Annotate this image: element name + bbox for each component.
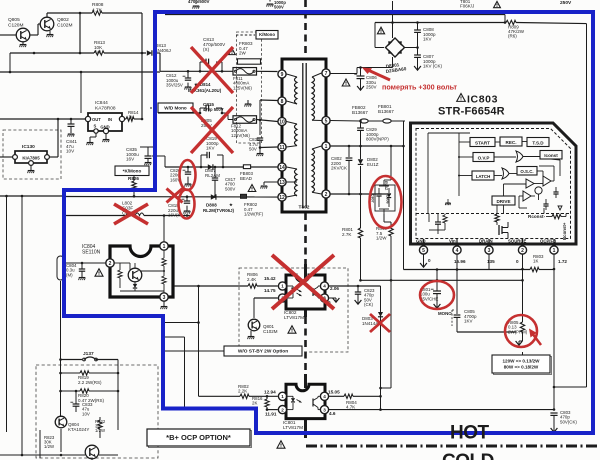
- connector J pad: [57, 256, 64, 280]
- svg-text:KTA1024Y: KTA1024Y: [68, 427, 89, 432]
- svg-text:F06K/J: F06K/J: [460, 4, 474, 9]
- svg-text:1.72: 1.72: [558, 259, 567, 264]
- wire primary return y194: [331, 193, 392, 195]
- wire pin1 ocp down: [553, 254, 555, 409]
- svg-text:MONO: MONO: [438, 311, 452, 316]
- svg-text:250V: 250V: [366, 85, 377, 90]
- svg-text:(R6): (R6): [508, 34, 517, 39]
- svg-text:2.4K: 2.4K: [247, 277, 256, 282]
- ground under C803: [551, 428, 558, 432]
- T802 secondary winding 10-11: [295, 124, 298, 146]
- capacitor C830: [259, 100, 261, 135]
- IC803 internal wiring: [428, 132, 470, 134]
- svg-text:R808: R808: [92, 2, 104, 8]
- resistor FR802: [241, 194, 247, 198]
- warning triangle near FR803: [229, 49, 236, 55]
- svg-text:2K: 2K: [252, 401, 257, 406]
- svg-text:0: 0: [428, 258, 431, 263]
- IC804 body: [110, 246, 173, 297]
- svg-text:135: 135: [487, 259, 495, 264]
- T802 pin 8: [278, 97, 286, 105]
- IC803 inner dashed outline: [416, 129, 571, 239]
- capacitor C812: [187, 71, 189, 78]
- red X over D803: [370, 314, 390, 332]
- wire IC804 pin1 up to rail: [163, 216, 165, 242]
- isolation barrier below IC801: [304, 420, 307, 438]
- transistor Q804: [55, 416, 67, 428]
- wire IC802 pin1 rail: [174, 285, 248, 287]
- wire rail y167 to pin14: [165, 166, 278, 168]
- warning triangle below IC802: [288, 326, 296, 333]
- IC803 pin 2: [518, 246, 526, 254]
- svg-text:2.2K: 2.2K: [238, 389, 247, 394]
- T802 pin 12: [278, 193, 286, 201]
- red ellipse around R805: [505, 315, 537, 347]
- svg-text:1: 1: [325, 144, 328, 150]
- wire note box to pin1 line: [522, 352, 524, 355]
- svg-text:JM: JM: [128, 115, 134, 120]
- svg-text:16.96: 16.96: [454, 259, 466, 264]
- svg-text:15.05: 15.05: [328, 390, 340, 395]
- svg-text:COLD: COLD: [442, 451, 494, 460]
- resistor R805 (red circled): [522, 318, 524, 322]
- wire bridge AC left: [374, 23, 376, 48]
- svg-text:5: 5: [422, 248, 425, 254]
- svg-text:B13667: B13667: [378, 109, 394, 114]
- HOT/COLD separator dash-dot line: [306, 445, 600, 448]
- red X near C818: [167, 189, 183, 203]
- red X over L802: [114, 204, 148, 224]
- wire pin4 Vin down: [456, 254, 458, 269]
- capacitor C807: [417, 48, 419, 56]
- svg-text:Q805: Q805: [8, 17, 20, 23]
- node C807/C808 junction: [416, 46, 419, 49]
- svg-text:3: 3: [163, 295, 166, 301]
- svg-text:O.V.P: O.V.P: [478, 155, 490, 160]
- wire to fuse F812: [222, 112, 228, 114]
- wire vertical x142: [141, 13, 143, 119]
- svg-text:80W => 0.18/2W: 80W => 0.18/2W: [504, 365, 539, 370]
- svg-text:1: 1: [163, 244, 166, 250]
- wire from IC804 region down: [198, 286, 200, 396]
- svg-text:B13667: B13667: [352, 110, 368, 115]
- wire IC130 input: [0, 156, 13, 158]
- svg-text:9: 9: [281, 72, 284, 78]
- REC block: [500, 137, 522, 146]
- svg-text:2W(PRM): 2W(PRM): [508, 329, 528, 334]
- wire rail y53: [10, 52, 94, 54]
- IC803 body outline: [411, 123, 577, 244]
- svg-text:2: 2: [109, 261, 112, 267]
- svg-text:1/2W: 1/2W: [95, 428, 106, 433]
- IC802 internal led: [286, 285, 293, 287]
- svg-text:2.7K: 2.7K: [342, 232, 352, 237]
- svg-text:13: 13: [279, 180, 285, 186]
- IC803 internal resistor rconst: [552, 214, 561, 218]
- resistor R822: [99, 417, 101, 420]
- resistor R820: [61, 390, 81, 392]
- svg-text:EU1Z: EU1Z: [367, 162, 379, 167]
- svg-text:D806: D806: [386, 195, 390, 204]
- svg-text:120W => 0.13/2W: 120W => 0.13/2W: [502, 359, 540, 364]
- T802 pin 14: [278, 163, 286, 171]
- IC801 internal led: [286, 395, 293, 397]
- svg-text:2: 2: [521, 248, 524, 254]
- label box W/D Mono: [158, 103, 193, 113]
- red arrow to R805: [532, 333, 541, 345]
- svg-text:LATCH: LATCH: [476, 174, 491, 179]
- IC801 pin 3: [320, 406, 328, 414]
- IC803 comparator 1: [526, 179, 534, 188]
- svg-text:14.75: 14.75: [264, 288, 276, 293]
- svg-text:4: 4: [456, 248, 459, 254]
- svg-text:2W: 2W: [239, 51, 247, 56]
- red ellipse over C818: [179, 190, 195, 219]
- ground under R805: [516, 341, 523, 345]
- IC804 pin 2: [106, 259, 114, 267]
- wire x184.5 vertical: [184, 337, 186, 408]
- IC803 internal mosfet: [498, 225, 500, 235]
- wire drain vertical x405: [403, 146, 405, 270]
- ground near pin8: [247, 100, 249, 104]
- svg-text:OCP/FB: OCP/FB: [540, 239, 556, 244]
- capacitor C805: [456, 270, 458, 315]
- wire IC844 OUT rail y119: [0, 118, 86, 120]
- svg-text:W/O ST-BY 2W Option: W/O ST-BY 2W Option: [238, 349, 288, 355]
- T802 pin 10: [278, 117, 286, 125]
- red X over C815: [191, 107, 233, 153]
- svg-text:1KV: 1KV: [206, 146, 215, 151]
- svg-text:2KV/CK: 2KV/CK: [331, 166, 347, 171]
- IC803 pin 4: [453, 246, 461, 254]
- warning triangle near T801: [494, 1, 501, 7]
- IC801 internal phototransistor: [312, 399, 314, 407]
- svg-text:10V: 10V: [82, 411, 90, 416]
- transistor Q803: [85, 445, 99, 459]
- label box W/O ST-BY Option: [224, 346, 302, 356]
- wire bridge output to B+ rail: [392, 57, 394, 68]
- svg-text:470p/500V: 470p/500V: [188, 0, 210, 4]
- svg-text:Iconst: Iconst: [544, 153, 558, 158]
- svg-text:800V(NPP): 800V(NPP): [366, 137, 389, 142]
- T802 pin 7: [322, 69, 330, 77]
- wire left rail y196 (cold side): [0, 195, 62, 197]
- isolation barrier dashed line mid: [304, 213, 307, 264]
- IC802 pin 2: [278, 294, 286, 302]
- svg-text:10V: 10V: [66, 149, 75, 154]
- ground under Q805: [22, 42, 24, 44]
- dashed option box around IC802: [239, 268, 348, 352]
- wire y337 stub: [163, 336, 185, 338]
- wire pin3 drain down: [488, 254, 490, 269]
- diode D806 block (red circled): [390, 146, 392, 180]
- IC801 pin 4: [320, 392, 328, 400]
- svg-text:Q802: Q802: [57, 17, 69, 23]
- wire right inner vertical x586.5: [586, 24, 588, 387]
- svg-text:SE110N: SE110N: [82, 249, 101, 255]
- warning triangle near bridge: [377, 27, 384, 34]
- capacitor C806: [360, 68, 362, 77]
- wire Q802 collector to top rail: [46, 13, 48, 17]
- IC804 pin 3: [160, 293, 168, 301]
- wire B+ rail y71 from x160: [160, 70, 233, 72]
- svg-text:12.94: 12.94: [264, 390, 276, 395]
- svg-text:10: 10: [279, 119, 285, 125]
- svg-text:BEAD: BEAD: [240, 176, 252, 181]
- resistor R814: [125, 118, 126, 120]
- capacitor C829: [360, 121, 362, 128]
- svg-text:7: 7: [325, 71, 328, 77]
- svg-text:померять +300 вольт: померять +300 вольт: [382, 83, 457, 92]
- IC130 dashed option box: [3, 130, 61, 179]
- wire to IC801 pin1: [199, 395, 241, 397]
- svg-text:O.S.C.: O.S.C.: [520, 169, 533, 174]
- fuse F812: [233, 116, 257, 124]
- wire F812 to T802 pin10: [257, 120, 278, 122]
- wire C815 rail y113: [158, 112, 200, 114]
- wire rail y72 left: [0, 71, 160, 73]
- svg-text:DRAIN: DRAIN: [479, 239, 493, 244]
- IC803 internal hatch gnd: [445, 202, 450, 204]
- svg-text:T802: T802: [299, 205, 310, 211]
- svg-text:2.2 2W(RS): 2.2 2W(RS): [78, 380, 102, 385]
- wire IC801 pin2: [267, 409, 278, 411]
- svg-text:W/D Mono: W/D Mono: [164, 105, 187, 110]
- transformer core lines: [302, 63, 304, 208]
- inductor L802 (crossed out): [126, 213, 144, 216]
- wire T802 pin11 to C830: [260, 146, 278, 149]
- IC803 small triangle: [558, 206, 562, 210]
- wire IC801 pin4 right: [328, 395, 344, 397]
- svg-text:J137: J137: [83, 351, 94, 357]
- label box K/Mono top: [236, 34, 255, 36]
- T802 secondary winding 14-12: [295, 169, 298, 196]
- wire y388 link from R846: [381, 387, 392, 389]
- transistor Q802: [40, 17, 54, 31]
- wire rail y215.5 with L802: [65, 215, 126, 217]
- svg-text:IC803: IC803: [467, 94, 498, 106]
- svg-text:S: S: [94, 124, 97, 129]
- svg-text:16V: 16V: [126, 157, 135, 162]
- svg-text:1KV (CK): 1KV (CK): [423, 64, 443, 69]
- svg-text:Vin: Vin: [449, 239, 456, 244]
- resistor R806: [248, 284, 257, 288]
- svg-text:125V(N6): 125V(N6): [231, 133, 250, 138]
- T802 winding pins 1-2: [312, 149, 315, 192]
- LATCH block: [472, 171, 494, 180]
- ground top C8xx: [267, 3, 273, 5]
- wire left verticals to bottom: [6, 196, 8, 432]
- wire y387 link: [554, 386, 587, 388]
- svg-text:GND: GND: [416, 239, 426, 244]
- svg-text:D808: D808: [206, 203, 217, 208]
- IC802 pin 1: [278, 282, 286, 290]
- svg-text:1: 1: [281, 394, 284, 399]
- wire bridge AC top from T801: [392, 1, 394, 38]
- svg-text:C102M: C102M: [263, 329, 278, 334]
- resistor R804: [344, 394, 353, 398]
- svg-text:C120M: C120M: [8, 22, 23, 28]
- IC801 pin 2: [278, 406, 286, 414]
- T802 pin 9: [278, 70, 286, 78]
- bridge rectifier D8801: [386, 38, 405, 57]
- wire bottom stub: [91, 459, 93, 460]
- OSC block: [517, 167, 537, 176]
- svg-text:SOURCE: SOURCE: [508, 239, 527, 244]
- svg-text:LTV817M: LTV817M: [284, 315, 304, 320]
- svg-text:C102M: C102M: [57, 22, 72, 28]
- wire drain rail y146: [331, 145, 404, 147]
- svg-text:START: START: [475, 140, 490, 145]
- svg-text:(X): (X): [203, 47, 210, 52]
- barrier stub into IC801 notch: [304, 374, 307, 388]
- wire pin2 source down: [522, 254, 524, 318]
- svg-text:4: 4: [323, 394, 326, 399]
- wire IC802 pin4 right: [328, 285, 380, 287]
- capacitor C818 (red circled): [186, 197, 188, 201]
- ground under IC844 GND pin: [105, 134, 107, 139]
- ground under IC803 pin5: [423, 254, 425, 263]
- T802 secondary winding 9-8: [295, 77, 298, 104]
- T802 pin 2: [322, 190, 330, 198]
- diode D802: [360, 146, 362, 159]
- wire source return rail y280: [361, 279, 523, 281]
- capacitor C803: [553, 408, 556, 411]
- IC803 internal or-gate 2: [502, 168, 509, 179]
- svg-text:3: 3: [323, 407, 326, 412]
- wire top inner rail y14.5: [165, 14, 505, 16]
- svg-text:HOT: HOT: [450, 423, 490, 444]
- svg-text:15.42: 15.42: [264, 276, 276, 281]
- IC802 internal phototransistor: [312, 288, 314, 296]
- capacitor C833: [75, 391, 77, 404]
- IC803 internal or-gate 1: [516, 151, 523, 162]
- wire rail y196 to pin12: [65, 196, 278, 199]
- IC803 pin 3: [485, 246, 493, 254]
- svg-text:4.6: 4.6: [329, 411, 336, 416]
- svg-text:2: 2: [281, 407, 284, 412]
- svg-text:250V: 250V: [560, 0, 572, 6]
- svg-text:14: 14: [279, 165, 285, 171]
- svg-text:8: 8: [281, 99, 284, 105]
- isolation barrier dashed line top: [304, 0, 307, 58]
- T802 internal pin stubs: [287, 74, 298, 77]
- svg-text:IC844: IC844: [95, 100, 108, 106]
- Iconst block: [540, 151, 562, 160]
- IC803 current source circle: [535, 187, 542, 194]
- svg-text:1K: 1K: [533, 259, 538, 264]
- IC803 pin 1: [550, 246, 558, 254]
- svg-text:IC130: IC130: [22, 144, 35, 150]
- red ellipse around C801: [420, 281, 454, 309]
- svg-text:OUT: OUT: [92, 117, 101, 122]
- red ellipse over C820: [180, 160, 196, 190]
- svg-text:11: 11: [279, 145, 285, 151]
- svg-text:4.7K: 4.7K: [92, 7, 103, 13]
- resistor R802: [240, 394, 249, 398]
- svg-text:50V(CK): 50V(CK): [560, 419, 577, 424]
- svg-text:1/2W: 1/2W: [44, 444, 55, 449]
- capacitor C841: [70, 119, 72, 124]
- wire y332 to R805 node: [457, 331, 516, 333]
- svg-text:1: 1: [281, 284, 284, 289]
- svg-text:IN: IN: [108, 117, 112, 122]
- T802 pin 5: [322, 116, 330, 124]
- svg-text:(M): (M): [66, 272, 73, 277]
- fuse F811: [233, 68, 257, 76]
- diode D803 (crossed out): [378, 312, 383, 317]
- wire Vin feed rail y121: [331, 120, 360, 123]
- svg-text:KIA7805: KIA7805: [22, 156, 40, 161]
- svg-text:0: 0: [516, 259, 519, 264]
- capacitor C819: [200, 155, 202, 167]
- red ellipse around D806: [370, 176, 402, 228]
- transistor Q801: [248, 319, 260, 331]
- svg-text:T.S.D: T.S.D: [532, 140, 544, 145]
- svg-text:★: ★: [228, 202, 233, 207]
- node IC844 IN junction: [141, 118, 144, 121]
- ground under IC844 S pin: [95, 133, 97, 137]
- resistor R808: [92, 11, 102, 15]
- ground under IC804 pin3: [163, 301, 165, 306]
- IC801 pin 1: [278, 392, 286, 400]
- svg-text:2: 2: [325, 192, 328, 198]
- wire IC130 output to rail: [49, 156, 58, 158]
- isolation barrier dashed line lower: [304, 317, 307, 374]
- wire left rail to Q805: [0, 34, 16, 36]
- svg-text:RL2AM: RL2AM: [205, 173, 220, 178]
- label box B+ OCP OPTION: [149, 431, 252, 448]
- svg-text:4W: 4W: [94, 50, 102, 55]
- T802 pin 13: [278, 178, 286, 186]
- ferrite bead FB803: [243, 165, 250, 169]
- transistor Q805: [16, 28, 30, 42]
- IC804 internal circuit: [114, 262, 130, 264]
- IC803 internal caps: [543, 203, 548, 205]
- OVP block: [473, 153, 494, 162]
- svg-text:3: 3: [488, 248, 491, 254]
- barrier stub below IC802: [304, 309, 307, 317]
- svg-text:RL2M(TVR06J): RL2M(TVR06J): [203, 208, 235, 213]
- svg-text:1/2W(RF): 1/2W(RF): [244, 212, 264, 217]
- T802 pin 1: [322, 142, 330, 150]
- capacitor C802: [348, 146, 350, 157]
- wire x62 vertical: [60, 360, 62, 418]
- svg-text:470p 500V: 470p 500V: [203, 107, 224, 112]
- ground left of pin13: [264, 181, 278, 183]
- IC802 optocoupler body (crossed out): [286, 275, 325, 309]
- IC803 comparator 2: [543, 176, 551, 186]
- IC803 pin stubs to bottom: [423, 239, 425, 244]
- resistor R809: [506, 20, 516, 24]
- wire bottom rail y455: [0, 454, 85, 456]
- svg-text:1KV: 1KV: [464, 319, 473, 324]
- note box power values: [494, 357, 552, 375]
- svg-text:K/Mono: K/Mono: [259, 32, 275, 37]
- svg-text:EU1Z: EU1Z: [384, 181, 388, 191]
- red note arrow to +300V point: [368, 70, 390, 80]
- wire y351 stub to option box: [163, 350, 224, 352]
- svg-text:*K/Mono: *K/Mono: [123, 168, 142, 173]
- IC803 comparator 3: [523, 191, 531, 201]
- resistor R801: [360, 194, 362, 228]
- svg-text:1KV: 1KV: [423, 37, 432, 42]
- capacitor C823: [357, 286, 359, 292]
- svg-text:*B+ OCP OPTION*: *B+ OCP OPTION*: [166, 433, 231, 442]
- T802 pin 11: [278, 143, 286, 151]
- svg-text:11.91: 11.91: [265, 412, 277, 417]
- svg-text:Rconst+: Rconst+: [562, 222, 567, 240]
